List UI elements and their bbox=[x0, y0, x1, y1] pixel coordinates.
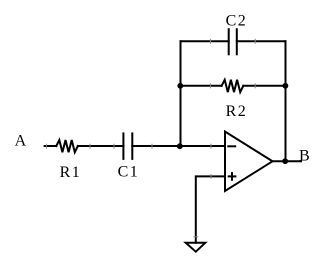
pin tick R2 pin 2 bbox=[254, 83, 256, 88]
pin tick op-amp inverting input bbox=[210, 144, 212, 149]
ground bbox=[186, 243, 206, 252]
node junction dot (inverting input node) bbox=[177, 143, 183, 149]
pin tick R2 pin 1 bbox=[210, 83, 212, 88]
capacitor C2 bbox=[229, 29, 237, 54]
node junction dot (output node B) bbox=[282, 158, 288, 164]
op-amp inverting input minus sign bbox=[228, 145, 235, 147]
pin tick R1 pin 2 bbox=[89, 144, 91, 149]
svg-text:B: B bbox=[299, 147, 311, 164]
capacitor C1 bbox=[123, 133, 132, 159]
wire non-inverting input to ground riser bbox=[196, 176, 225, 242]
svg-text:C1: C1 bbox=[118, 164, 140, 181]
wire left vertical feedback riser bbox=[180, 41, 182, 146]
svg-text:R2: R2 bbox=[226, 103, 248, 120]
wire right vertical feedback riser bbox=[285, 41, 287, 161]
wire R1 to C1 bbox=[78, 145, 124, 147]
pin tick R1 pin 1 bbox=[45, 144, 47, 149]
resistor R1 bbox=[56, 140, 78, 152]
pin tick C1 pin 2 bbox=[151, 144, 153, 149]
wire C1 to op-amp inverting input bbox=[132, 145, 225, 147]
pin tick ground pin bbox=[193, 236, 198, 238]
op-amp non-inverting input plus sign bbox=[229, 173, 236, 180]
pin tick op-amp non-inverting input bbox=[210, 174, 212, 179]
svg-text:A: A bbox=[15, 133, 28, 150]
pin tick C2 pin 1 bbox=[210, 39, 212, 44]
wire R2 row left segment bbox=[181, 85, 222, 87]
resistor R2 bbox=[222, 80, 244, 92]
node junction dot (left, R2 row) bbox=[177, 83, 183, 89]
wire op-amp output bbox=[273, 160, 302, 162]
wire A to R1 bbox=[45, 145, 57, 147]
wire top feedback left segment bbox=[181, 40, 229, 42]
pin tick C1 pin 1 bbox=[113, 144, 115, 149]
svg-text:R1: R1 bbox=[60, 164, 82, 181]
node junction dot (right, R2 row) bbox=[283, 83, 289, 89]
wire top feedback right segment bbox=[237, 40, 286, 42]
pin tick C2 pin 2 bbox=[254, 39, 256, 44]
wire R2 row right segment bbox=[243, 85, 285, 87]
svg-text:C2: C2 bbox=[226, 13, 248, 30]
op-amp U1 bbox=[225, 132, 273, 192]
